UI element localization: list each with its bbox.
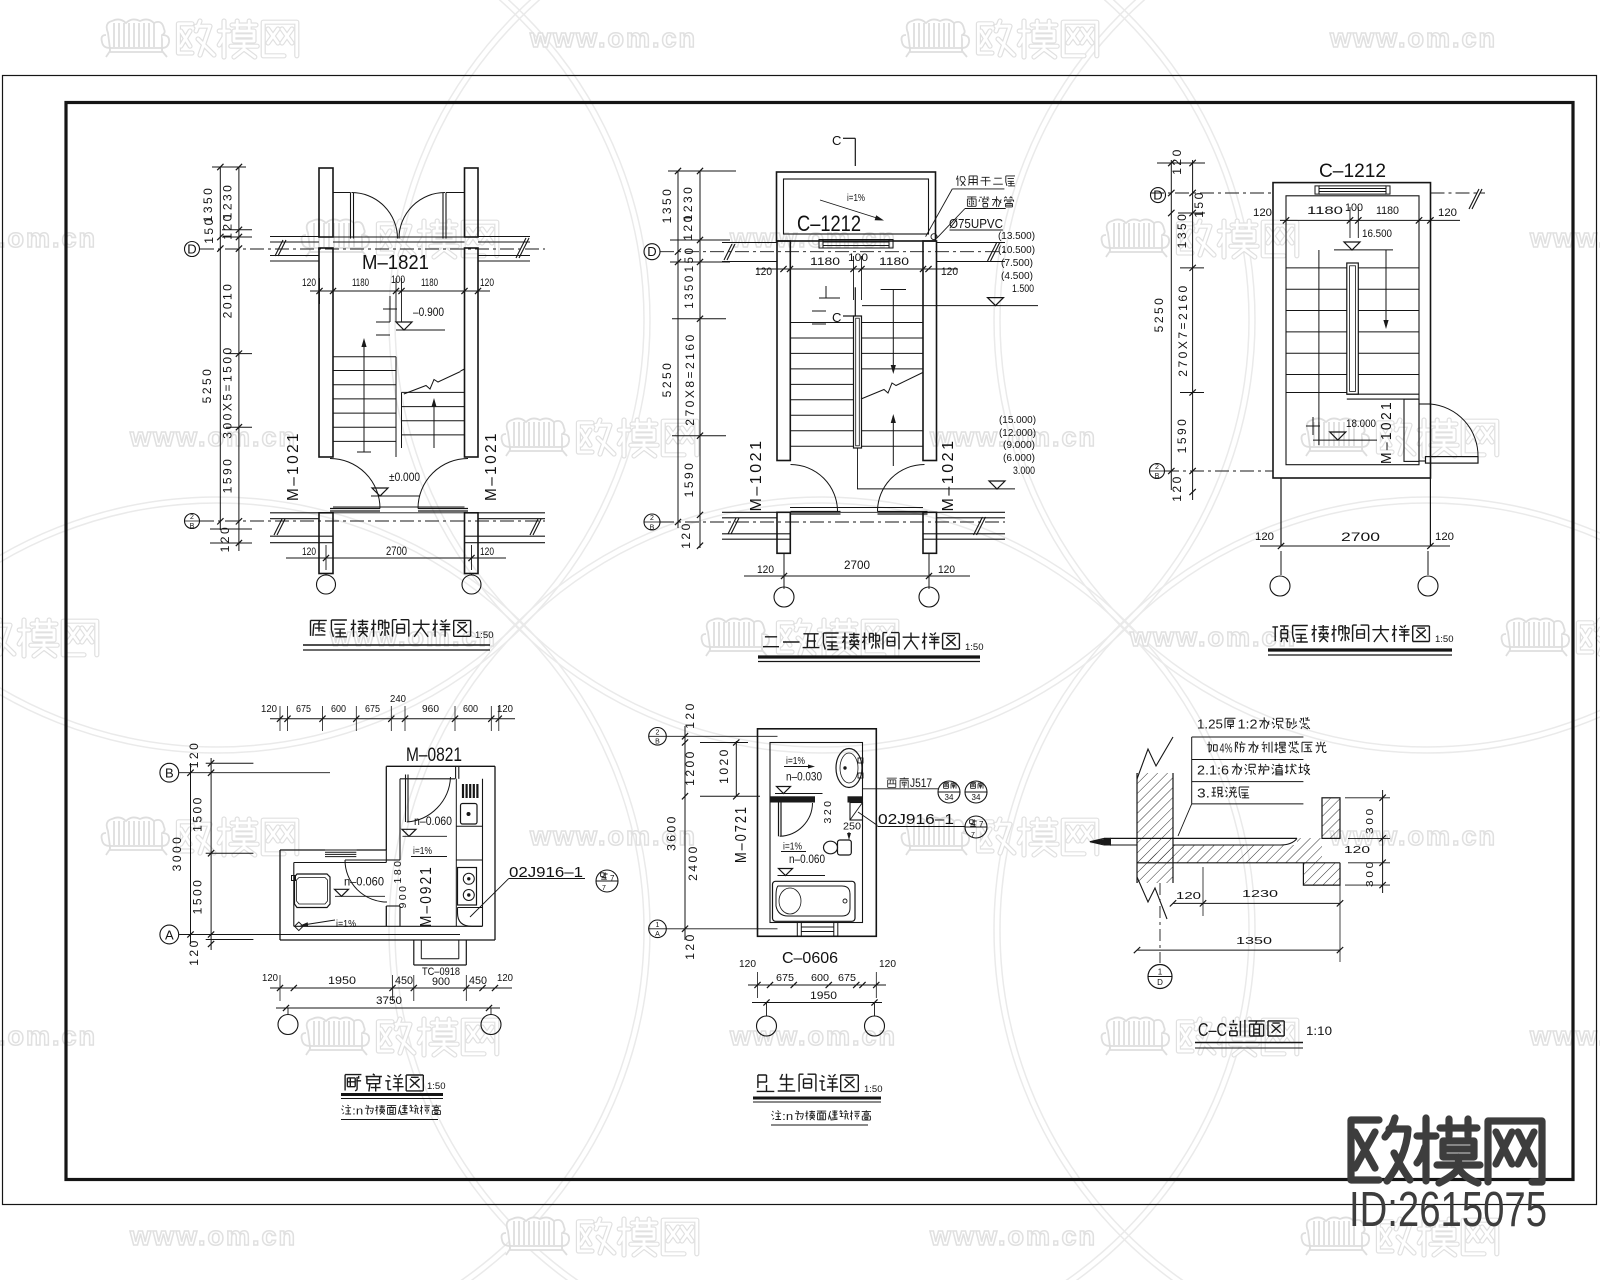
svg-text:2010: 2010 — [221, 282, 235, 319]
svg-text:2: 2 — [190, 514, 194, 521]
svg-text:120: 120 — [1344, 844, 1370, 856]
svg-text:–0.900: –0.900 — [413, 307, 444, 319]
svg-text:C–C: C–C — [1198, 1019, 1227, 1040]
svg-text:2400: 2400 — [686, 844, 700, 881]
svg-text:(7.500): (7.500) — [1001, 257, 1033, 269]
svg-text:7: 7 — [610, 874, 615, 883]
svg-text:www.om.cn: www.om.cn — [1329, 23, 1497, 53]
svg-text:i=1%: i=1% — [783, 841, 802, 853]
svg-text:n–0.030: n–0.030 — [786, 772, 822, 784]
svg-text:34: 34 — [945, 793, 954, 802]
svg-text:1590: 1590 — [1175, 417, 1189, 454]
svg-text:675: 675 — [296, 703, 311, 715]
svg-text:M–0721: M–0721 — [733, 805, 750, 863]
svg-text:M–1021: M–1021 — [285, 431, 302, 501]
svg-text:C–1212: C–1212 — [797, 211, 861, 236]
svg-text:120: 120 — [262, 972, 278, 984]
svg-text:M–1021: M–1021 — [1378, 400, 1395, 464]
svg-text:240: 240 — [390, 693, 406, 705]
svg-text:1500: 1500 — [191, 795, 205, 832]
svg-text:120: 120 — [739, 958, 756, 970]
svg-text:1: 1 — [656, 922, 660, 929]
svg-text:2700: 2700 — [1341, 530, 1380, 544]
svg-text:1350: 1350 — [1236, 935, 1272, 947]
svg-text:1230: 1230 — [1242, 888, 1278, 900]
svg-text:i=1%: i=1% — [336, 918, 356, 930]
svg-text:www.om.cn: www.om.cn — [1129, 622, 1297, 652]
svg-text:www.om.cn: www.om.cn — [929, 1221, 1097, 1251]
svg-text:1350: 1350 — [660, 187, 674, 224]
svg-text:M–1021: M–1021 — [748, 439, 765, 512]
svg-text:C: C — [832, 310, 841, 325]
svg-text:320: 320 — [822, 798, 834, 823]
svg-text::n: :n — [352, 1105, 363, 1117]
svg-text:(12.000): (12.000) — [999, 427, 1036, 439]
svg-text:1500: 1500 — [191, 878, 205, 915]
svg-text:120: 120 — [1438, 207, 1457, 219]
svg-text:www.om.cn: www.om.cn — [529, 23, 697, 53]
svg-text:120: 120 — [1170, 474, 1184, 502]
svg-text:3.: 3. — [1197, 786, 1210, 801]
svg-text::n: :n — [782, 1111, 793, 1123]
svg-text:150: 150 — [1192, 190, 1206, 218]
svg-text:n–0.060: n–0.060 — [344, 877, 384, 889]
svg-text:1180: 1180 — [810, 256, 840, 268]
svg-text:675: 675 — [838, 972, 856, 984]
svg-text:120: 120 — [681, 213, 695, 241]
svg-text:675: 675 — [365, 703, 380, 715]
svg-text:J517: J517 — [910, 776, 932, 790]
svg-text:D: D — [1157, 978, 1163, 987]
svg-text:7: 7 — [602, 885, 606, 892]
svg-text:120: 120 — [480, 277, 494, 289]
svg-text:n–0.060: n–0.060 — [414, 816, 452, 828]
svg-text:www.om.cn: www.om.cn — [0, 1021, 97, 1051]
svg-text:150: 150 — [684, 246, 696, 273]
svg-text:120: 120 — [497, 703, 513, 715]
svg-text:B: B — [1155, 473, 1160, 480]
svg-text:250: 250 — [843, 821, 861, 833]
svg-text:120: 120 — [683, 701, 697, 729]
svg-text:1180: 1180 — [421, 277, 438, 289]
svg-text:120: 120 — [480, 546, 494, 558]
svg-text:C–1212: C–1212 — [1319, 161, 1386, 182]
svg-text:3750: 3750 — [376, 995, 402, 1007]
svg-text:120: 120 — [879, 958, 896, 970]
svg-text:www.om.cn: www.om.cn — [129, 1221, 297, 1251]
svg-text:120: 120 — [755, 266, 772, 278]
svg-text:300: 300 — [1364, 806, 1376, 834]
svg-text:5250: 5250 — [660, 361, 674, 398]
svg-text:B: B — [190, 523, 195, 530]
svg-text:www.om.cn: www.om.cn — [0, 223, 97, 253]
svg-text:(13.500): (13.500) — [998, 230, 1035, 242]
svg-text:1:10: 1:10 — [1306, 1024, 1332, 1038]
svg-text:16.500: 16.500 — [1362, 228, 1392, 240]
svg-text:B: B — [650, 525, 655, 532]
svg-text:1950: 1950 — [810, 990, 837, 1002]
svg-text:1:50: 1:50 — [427, 1081, 446, 1092]
svg-text:100: 100 — [848, 252, 868, 264]
svg-text:2: 2 — [1155, 464, 1159, 471]
svg-text:1180: 1180 — [1376, 205, 1399, 217]
svg-text:450: 450 — [395, 975, 413, 987]
svg-text:D: D — [1153, 188, 1162, 203]
svg-text:675: 675 — [776, 972, 794, 984]
svg-text:2.1:6: 2.1:6 — [1197, 763, 1229, 778]
svg-text:1.25: 1.25 — [1197, 717, 1223, 732]
svg-text:120: 120 — [1170, 147, 1184, 175]
svg-text:120: 120 — [1435, 531, 1454, 543]
svg-text:M–0921: M–0921 — [418, 865, 435, 927]
svg-text:300: 300 — [1364, 859, 1376, 887]
svg-text:i=1%: i=1% — [847, 193, 865, 204]
svg-text:(4.500): (4.500) — [1001, 270, 1033, 282]
svg-text:600: 600 — [331, 703, 346, 715]
svg-text:1350: 1350 — [1175, 212, 1189, 249]
svg-text:C–0606: C–0606 — [782, 950, 838, 967]
svg-text:i=1%: i=1% — [413, 845, 432, 857]
svg-text:120: 120 — [218, 525, 232, 553]
svg-text:5250: 5250 — [200, 367, 214, 404]
svg-text:2700: 2700 — [386, 546, 407, 558]
svg-text:M–0821: M–0821 — [406, 745, 462, 766]
svg-text:3.000: 3.000 — [1013, 465, 1035, 477]
svg-text:900: 900 — [397, 883, 409, 908]
svg-text:(10.500): (10.500) — [998, 244, 1035, 256]
svg-text:D: D — [187, 242, 196, 257]
svg-text:120: 120 — [941, 266, 958, 278]
svg-text:120: 120 — [679, 521, 693, 549]
svg-text:2: 2 — [656, 730, 660, 737]
svg-text:2700: 2700 — [844, 560, 870, 572]
svg-text:Ø75UPVC: Ø75UPVC — [949, 216, 1003, 231]
svg-text:1180: 1180 — [879, 256, 909, 268]
svg-text:n–0.060: n–0.060 — [789, 854, 825, 866]
svg-text:120: 120 — [938, 564, 955, 576]
svg-text:1:50: 1:50 — [965, 642, 984, 653]
svg-text:450: 450 — [469, 975, 487, 987]
svg-text:5250: 5250 — [1152, 296, 1166, 333]
svg-text:1590: 1590 — [682, 461, 696, 498]
svg-text:(6.000): (6.000) — [1003, 452, 1035, 464]
svg-text:120: 120 — [497, 972, 513, 984]
svg-text:www.om.cn: www.om.cn — [1529, 223, 1600, 253]
svg-text:3000: 3000 — [170, 835, 184, 872]
svg-text:300X5=1500: 300X5=1500 — [221, 345, 235, 438]
svg-text:1180: 1180 — [352, 277, 369, 289]
svg-text:120: 120 — [187, 938, 201, 966]
svg-text:600: 600 — [463, 703, 478, 715]
svg-text:120: 120 — [683, 932, 697, 960]
svg-text:1350: 1350 — [684, 273, 696, 309]
svg-text:270X8=2160: 270X8=2160 — [683, 332, 697, 425]
svg-text:1590: 1590 — [221, 457, 235, 494]
svg-text:120: 120 — [302, 277, 316, 289]
svg-text:D: D — [647, 244, 656, 259]
svg-text:(9.000): (9.000) — [1003, 439, 1035, 451]
svg-text:1:2: 1:2 — [1238, 717, 1258, 732]
svg-text:2: 2 — [650, 515, 654, 522]
svg-text:1: 1 — [1158, 968, 1163, 977]
svg-text:1950: 1950 — [328, 975, 356, 987]
svg-text:120: 120 — [302, 546, 316, 558]
svg-text:120: 120 — [1176, 890, 1201, 902]
svg-text:120: 120 — [1255, 531, 1274, 543]
svg-text:1:50: 1:50 — [475, 630, 494, 641]
svg-text:(15.000): (15.000) — [999, 414, 1036, 426]
svg-text:18.000: 18.000 — [1346, 418, 1376, 430]
svg-text:100: 100 — [1345, 202, 1363, 214]
svg-text:120: 120 — [221, 212, 235, 240]
svg-text:www.om.cn: www.om.cn — [329, 622, 497, 652]
svg-text:1020: 1020 — [717, 747, 731, 784]
svg-text:M–1021: M–1021 — [483, 431, 500, 501]
svg-text:150: 150 — [202, 216, 216, 244]
svg-text:i=1%: i=1% — [786, 755, 805, 767]
svg-text:www.om.cn: www.om.cn — [1529, 1021, 1600, 1051]
svg-text:100: 100 — [391, 274, 405, 286]
svg-text:1180: 1180 — [1307, 205, 1343, 217]
svg-text:7: 7 — [971, 832, 975, 839]
svg-text:B: B — [655, 739, 660, 746]
svg-text:±0.000: ±0.000 — [389, 472, 420, 484]
svg-text:M–1021: M–1021 — [940, 439, 957, 512]
svg-text:900: 900 — [432, 976, 450, 988]
svg-text:120: 120 — [187, 741, 201, 769]
svg-text:ID:2615075: ID:2615075 — [1349, 1183, 1547, 1237]
svg-text:120: 120 — [261, 703, 277, 715]
svg-text:600: 600 — [811, 972, 829, 984]
svg-text:1.500: 1.500 — [1012, 283, 1034, 295]
svg-text:960: 960 — [422, 703, 439, 715]
svg-text:120: 120 — [1253, 207, 1272, 219]
svg-text:120: 120 — [757, 564, 774, 576]
svg-text:1:50: 1:50 — [864, 1084, 883, 1095]
svg-text:C: C — [832, 133, 841, 148]
svg-text:3600: 3600 — [665, 814, 679, 851]
svg-text:B: B — [165, 766, 174, 781]
svg-text:180: 180 — [392, 858, 404, 883]
svg-text:02J916–1: 02J916–1 — [878, 811, 954, 828]
svg-text:www.om.cn: www.om.cn — [129, 422, 297, 452]
svg-text:A: A — [655, 931, 660, 938]
svg-text:A: A — [165, 928, 174, 943]
svg-text:4%: 4% — [1220, 741, 1233, 756]
svg-text:270X7=2160: 270X7=2160 — [1176, 283, 1190, 376]
svg-text:M–1821: M–1821 — [362, 252, 429, 274]
svg-text:1200: 1200 — [683, 749, 697, 786]
svg-text:7: 7 — [979, 820, 984, 829]
svg-text:34: 34 — [972, 793, 981, 802]
svg-text:1:50: 1:50 — [1435, 634, 1454, 645]
